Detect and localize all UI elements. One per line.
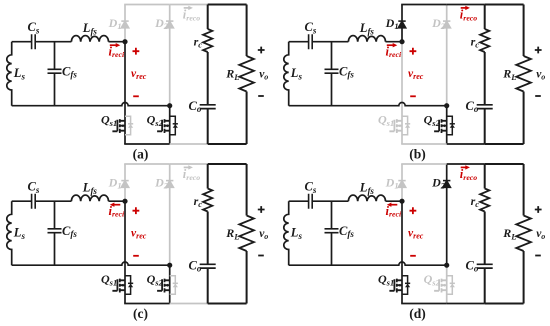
capacitor Cfs branch (c) [54, 201, 56, 265]
wire: mid rail with crossover hop (b) [289, 103, 447, 106]
label vrec minus (c) [133, 255, 139, 257]
svg-text:Qs2: Qs2 [424, 113, 441, 128]
current arrow i_reci (b) [387, 44, 394, 46]
svg-text:vrec: vrec [131, 68, 147, 81]
svg-text:Ls: Ls [290, 226, 303, 241]
wire: D2 column, top rail to node B (c) [169, 164, 171, 265]
svg-text:Co: Co [189, 259, 202, 274]
wire: leg2 vertical node B to bottom rail through Qs2 (d) [446, 265, 448, 303]
wire: top-left from Ls to Cs (c) [12, 200, 32, 202]
wire: leg1 vertical node A to bottom rail through Qs1 (b) [401, 42, 403, 144]
wire: D1 column, top rail corner to node A (d) [401, 164, 403, 201]
svg-text:ireco: ireco [460, 8, 477, 23]
inductor Ls (b) [284, 42, 289, 106]
svg-text:D1: D1 [108, 176, 122, 191]
capacitor Co (c) [200, 264, 216, 268]
svg-text:D2: D2 [431, 16, 446, 31]
inductor Ls (d) [284, 201, 289, 265]
wire: top rail left segment (a) [124, 4, 170, 6]
diode D2 (c) [166, 181, 173, 188]
svg-text:vo: vo [259, 69, 268, 82]
wire: D2 column, top rail to node B (d) [446, 164, 448, 265]
svg-text:Co: Co [466, 99, 479, 114]
svg-text:Qs1: Qs1 [378, 113, 394, 128]
wire: Cs to Lfs through Cfs junction (c) [35, 200, 71, 202]
wire: top-left from Ls to Cs (a) [12, 41, 32, 43]
wire: top rail left segment (d) [401, 163, 447, 165]
diode D1 (b) [398, 21, 405, 28]
capacitor Cfs branch (a) [54, 42, 56, 106]
svg-text:Qs2: Qs2 [424, 272, 441, 287]
capacitor Cs (a) [32, 34, 36, 49]
svg-text:(b): (b) [409, 147, 426, 162]
capacitor Co (a) [200, 105, 216, 109]
wire: top-left from Ls to Cs (b) [289, 41, 309, 43]
label vo plus (c) [258, 206, 265, 213]
inductor Lfs (d) [348, 195, 385, 201]
wire: leg1 vertical node A to bottom rail through Qs1 (a) [124, 42, 126, 144]
svg-text:Qs1: Qs1 [101, 113, 117, 128]
capacitor Cs (d) [309, 194, 313, 209]
svg-text:Co: Co [466, 259, 479, 274]
resistor RL (c) [239, 216, 254, 252]
svg-text:RL: RL [502, 226, 516, 241]
body diode of Qs2 (b) [447, 116, 455, 135]
label vo plus (d) [535, 206, 542, 213]
svg-text:vo: vo [536, 69, 545, 82]
wire: bottom rail Qs2 to output (a) [170, 143, 208, 145]
inductor Ls (a) [7, 42, 12, 106]
svg-text:Cs: Cs [27, 20, 39, 35]
diode D2 (d) [443, 181, 450, 188]
svg-text:Lfs: Lfs [359, 181, 375, 196]
resistor rc (b) [480, 29, 489, 52]
wire: bottom rail between Qs1 and Qs2 (b) [401, 143, 447, 145]
svg-text:D2: D2 [154, 176, 169, 191]
svg-text:vrec: vrec [131, 228, 147, 241]
wire: Cs to Lfs through Cfs junction (a) [35, 41, 71, 43]
transistor Qs2 (d) MOSFET symbol [434, 279, 447, 293]
wire: Lfs to node A (c) [109, 200, 126, 202]
wire: mid rail with crossover hop (a) [12, 103, 170, 106]
wire: bottom rail between Qs1 and Qs2 (d) [401, 303, 447, 305]
svg-text:Cs: Cs [304, 20, 316, 35]
svg-text:D2: D2 [154, 16, 169, 31]
current arrow i_reco (c) [184, 166, 189, 168]
resistor rc (a) [203, 29, 212, 52]
node B (d) [444, 263, 449, 268]
wire: Lfs to node A (a) [109, 41, 126, 43]
label vrec plus (c) [133, 207, 140, 214]
wire: D2 column, top rail to node B (b) [446, 5, 448, 106]
wire: bottom rail between Qs1 and Qs2 (c) [124, 303, 170, 305]
inductor Lfs (b) [348, 36, 385, 42]
capacitor Cfs branch (d) [331, 201, 333, 265]
node A (c) [122, 199, 127, 204]
svg-text:Qs1: Qs1 [101, 272, 117, 287]
svg-text:Ls: Ls [13, 226, 26, 241]
label vrec plus (b) [410, 48, 417, 55]
transistor Qs1 (d) MOSFET symbol [389, 279, 402, 293]
svg-text:rc: rc [194, 34, 203, 49]
wire: bottom rail Qs2 to output (b) [447, 143, 485, 145]
svg-text:D1: D1 [385, 16, 399, 31]
wire: mid rail with crossover hop (d) [289, 262, 447, 265]
node A (a) [122, 39, 127, 44]
transistor Qs1 (a) MOSFET symbol [112, 119, 125, 133]
node A (d) [399, 199, 404, 204]
wire: top rail right segment to output (d) [447, 163, 485, 165]
svg-text:Cfs: Cfs [339, 224, 354, 239]
transistor Qs1 (b) MOSFET symbol [389, 119, 402, 133]
wire: top rail left segment (b) [401, 4, 447, 6]
label vrec plus (d) [410, 207, 417, 214]
diode D1 (c) [121, 181, 128, 188]
capacitor Cfs branch (b) [331, 42, 333, 106]
svg-text:Qs2: Qs2 [147, 272, 164, 287]
body diode of Qs1 (b) [402, 116, 410, 135]
node B (a) [167, 103, 172, 108]
resistor rc (c) [203, 189, 212, 212]
transistor Qs2 (b) MOSFET symbol [434, 119, 447, 133]
wire: top rail right segment to output (a) [170, 4, 208, 6]
capacitor Cs (c) [32, 194, 36, 209]
label vrec minus (d) [410, 255, 416, 257]
wire: output rectangle (c) [208, 164, 247, 304]
diode D2 (a) [166, 21, 173, 28]
svg-text:(c): (c) [133, 306, 148, 321]
wire: output rectangle (d) [485, 164, 524, 304]
svg-text:vo: vo [259, 228, 268, 241]
svg-text:Ls: Ls [13, 66, 26, 81]
current arrow i_reci (a) [110, 44, 117, 46]
wire: D1 column, top rail corner to node A (b) [401, 5, 403, 42]
svg-text:ireco: ireco [183, 8, 200, 23]
wire: D1 column, top rail corner to node A (c) [124, 164, 126, 201]
current arrow i_reco (a) [184, 7, 189, 9]
resistor RL (d) [516, 216, 531, 252]
body diode of Qs2 (c) [170, 276, 178, 295]
body diode of Qs2 (a) [170, 116, 178, 135]
label vo minus (a) [258, 95, 264, 97]
svg-text:D1: D1 [385, 176, 399, 191]
resistor rc (d) [480, 189, 489, 212]
label vo plus (b) [535, 47, 542, 54]
wire: bottom rail Qs2 to output (c) [170, 303, 208, 305]
resistor RL (b) [516, 56, 531, 92]
current arrow i_reco (d) [461, 166, 466, 168]
wire: bottom rail between Qs1 and Qs2 (a) [124, 143, 170, 145]
svg-text:Qs2: Qs2 [147, 113, 164, 128]
svg-text:rc: rc [471, 194, 480, 209]
transistor Qs2 (c) MOSFET symbol [157, 279, 170, 293]
label vrec minus (a) [133, 95, 139, 97]
capacitor Co (b) [477, 105, 493, 109]
current arrow i_reci (d) [391, 204, 398, 206]
transistor Qs2 (a) MOSFET symbol [157, 119, 170, 133]
wire: leg2 vertical node B to bottom rail through Qs2 (a) [169, 106, 171, 144]
svg-text:ireco: ireco [183, 167, 200, 182]
current arrow i_reci (c) [114, 204, 121, 206]
svg-text:rc: rc [194, 194, 203, 209]
label vo minus (d) [535, 255, 541, 257]
svg-text:D2: D2 [431, 176, 446, 191]
svg-text:(a): (a) [133, 147, 149, 162]
node A (b) [399, 39, 404, 44]
wire: leg2 vertical node B to bottom rail through Qs2 (b) [446, 106, 448, 144]
svg-text:Cs: Cs [304, 180, 316, 195]
svg-text:RL: RL [502, 67, 516, 82]
svg-text:Cfs: Cfs [62, 64, 77, 79]
svg-text:rc: rc [471, 34, 480, 49]
svg-text:vrec: vrec [408, 228, 424, 241]
diode D2 (b) [443, 21, 450, 28]
wire: Cs to Lfs through Cfs junction (d) [312, 200, 348, 202]
diode D1 (d) [398, 181, 405, 188]
body diode of Qs1 (a) [125, 116, 133, 135]
wire: mid rail with crossover hop (c) [12, 262, 170, 265]
wire: Lfs to node A (b) [386, 41, 403, 43]
svg-text:ireco: ireco [460, 167, 477, 182]
wire: top rail right segment to output (b) [447, 4, 485, 6]
node B (b) [444, 103, 449, 108]
wire: Cs to Lfs through Cfs junction (b) [312, 41, 348, 43]
svg-text:RL: RL [225, 226, 239, 241]
svg-text:D1: D1 [108, 16, 122, 31]
svg-text:vo: vo [536, 228, 545, 241]
svg-text:Lfs: Lfs [82, 21, 98, 36]
wire: D1 column, top rail corner to node A (a) [124, 5, 126, 42]
wire: leg1 vertical node A to bottom rail through Qs1 (c) [124, 201, 126, 303]
wire: D2 column, top rail to node B (a) [169, 5, 171, 106]
svg-text:(d): (d) [409, 306, 426, 321]
svg-text:ireci: ireci [386, 204, 402, 219]
svg-text:Co: Co [189, 99, 202, 114]
body diode of Qs1 (c) [125, 276, 133, 295]
svg-text:Cs: Cs [27, 180, 39, 195]
label vrec plus (a) [133, 48, 140, 55]
wire: output rectangle (a) [208, 5, 247, 145]
current arrow i_reco (b) [461, 7, 466, 9]
inductor Lfs (a) [71, 36, 108, 42]
svg-text:Lfs: Lfs [359, 21, 375, 36]
label vo plus (a) [258, 47, 265, 54]
svg-text:RL: RL [225, 67, 239, 82]
diode D1 (a) [121, 21, 128, 28]
capacitor Co (d) [477, 264, 493, 268]
wire: top rail left segment (c) [124, 163, 170, 165]
wire: output rectangle (b) [485, 5, 524, 145]
svg-text:Lfs: Lfs [82, 181, 98, 196]
body diode of Qs1 (d) [402, 276, 410, 295]
body diode of Qs2 (d) [447, 276, 455, 295]
wire: top rail right segment to output (c) [170, 163, 208, 165]
wire: bottom rail Qs2 to output (d) [447, 303, 485, 305]
label vrec minus (b) [410, 95, 416, 97]
svg-text:Ls: Ls [290, 66, 303, 81]
label vo minus (c) [258, 255, 264, 257]
transistor Qs1 (c) MOSFET symbol [112, 279, 125, 293]
svg-text:Cfs: Cfs [62, 224, 77, 239]
svg-text:Cfs: Cfs [339, 64, 354, 79]
node B (c) [167, 263, 172, 268]
resistor RL (a) [239, 56, 254, 92]
svg-text:vrec: vrec [408, 68, 424, 81]
label vo minus (b) [535, 95, 541, 97]
wire: Lfs to node A (d) [386, 200, 403, 202]
svg-text:Qs1: Qs1 [378, 272, 394, 287]
svg-text:ireci: ireci [109, 204, 125, 219]
wire: leg1 vertical node A to bottom rail through Qs1 (d) [401, 201, 403, 303]
wire: top-left from Ls to Cs (d) [289, 200, 309, 202]
inductor Ls (c) [7, 201, 12, 265]
inductor Lfs (c) [71, 195, 108, 201]
capacitor Cs (b) [309, 34, 313, 49]
wire: leg2 vertical node B to bottom rail through Qs2 (c) [169, 265, 171, 303]
